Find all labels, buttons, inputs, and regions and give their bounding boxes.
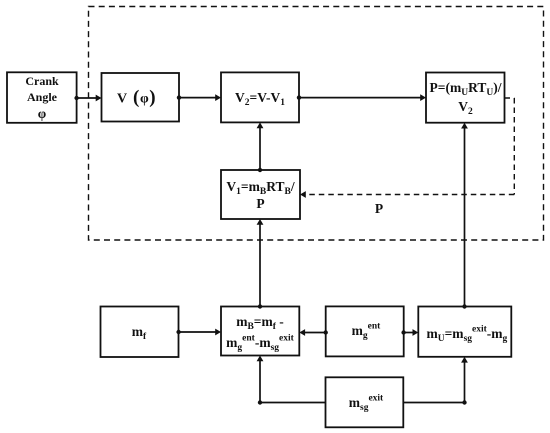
label: mB equation line 2 bbox=[221, 335, 299, 351]
box: mg_ent bbox=[326, 306, 404, 356]
junction dot at msg corner left bbox=[258, 400, 262, 404]
box: Crank Angle phi bbox=[7, 72, 77, 123]
arrowhead into P box bottom bbox=[461, 123, 468, 129]
arrowhead into P box left bbox=[420, 94, 426, 101]
box: P=(mU R TU)/V2 bbox=[426, 73, 505, 123]
wire: mg_ent to mU bbox=[404, 332, 416, 334]
label: Crank Angle phi bbox=[7, 73, 77, 122]
wire: msg_exit left to corner bbox=[260, 402, 326, 404]
label: mg ent bbox=[327, 323, 405, 339]
wire: V2 to P box bbox=[299, 97, 424, 99]
svg-text:): ) bbox=[149, 87, 155, 108]
wire: mg_ent to mB bbox=[302, 332, 326, 334]
junction dot at msg corner right bbox=[462, 400, 466, 404]
wire: Crank Angle to V(phi) bbox=[77, 97, 99, 99]
junction dot at V(phi) output bbox=[177, 95, 181, 99]
arrowhead into V2 bottom bbox=[257, 122, 264, 128]
wire: corner up to mU bottom bbox=[464, 359, 466, 402]
arrowhead into V1 right (dashed P feedback) bbox=[300, 191, 306, 198]
junction dot at V1 top bbox=[258, 168, 262, 172]
wire: mB up to V1 bbox=[259, 222, 261, 307]
box: mf bbox=[101, 307, 179, 358]
arrowhead into V1 bottom bbox=[257, 219, 264, 225]
box: msg_exit bbox=[326, 377, 404, 427]
label: mf bbox=[100, 324, 178, 340]
dashed wire: P box right going right bbox=[505, 97, 515, 99]
junction dot at mU top bbox=[462, 304, 466, 308]
label: P on feedback wire bbox=[372, 201, 386, 217]
wire: V(phi) to V2 bbox=[179, 97, 219, 99]
junction dot at mB top bbox=[258, 304, 262, 308]
dashed wire: feedback P into V1 right side bbox=[304, 194, 514, 196]
arrowhead into V2 left bbox=[215, 94, 221, 101]
arrowhead into mB right bbox=[299, 329, 305, 336]
arrowhead into V(phi) bbox=[96, 95, 102, 102]
arrowhead into mU bottom bbox=[461, 357, 468, 363]
dashed wire: down along right side bbox=[513, 98, 515, 195]
label: msg exit bbox=[327, 395, 405, 411]
wire: mf to mB bbox=[179, 331, 219, 333]
label: V2=V-V1 bbox=[221, 90, 299, 106]
junction dot at mg_ent left bbox=[324, 330, 328, 334]
label: mB = mf - mg ent - msg exit bbox=[221, 314, 299, 330]
wire: corner up to mB bottom bbox=[259, 358, 261, 403]
svg-text:(: ( bbox=[133, 87, 139, 108]
junction dot at Crank output bbox=[74, 96, 78, 100]
dashed enclosure rectangle bbox=[89, 7, 544, 241]
junction dot at V2 output bbox=[297, 95, 301, 99]
wire: msg_exit right to corner bbox=[403, 402, 464, 404]
label: mU = msg exit - mg bbox=[420, 326, 513, 342]
arrowhead into mB bottom bbox=[257, 356, 264, 362]
box: V(phi) bbox=[102, 73, 180, 122]
svg-text:φ: φ bbox=[140, 92, 149, 107]
wire: V1 up to V2 bbox=[259, 125, 261, 170]
arrowhead into mU left bbox=[413, 329, 419, 336]
label: V1=mB R TB / P bbox=[221, 178, 300, 212]
svg-text:V: V bbox=[117, 92, 127, 107]
box: V2=V-V1 bbox=[221, 72, 299, 122]
arrowhead into mB left bbox=[215, 329, 221, 336]
box: mB = mf - mg_ent - msg_exit bbox=[221, 307, 299, 356]
label: P=(mU R TU)/V2 bbox=[426, 78, 505, 116]
junction dot at mg_ent right bbox=[401, 330, 405, 334]
junction dot at mf output bbox=[176, 330, 180, 334]
wire: mU up to P box bbox=[464, 125, 466, 306]
box: V1=mB R TB / P bbox=[221, 170, 300, 219]
box: mU = msg_exit - mg bbox=[418, 307, 511, 357]
